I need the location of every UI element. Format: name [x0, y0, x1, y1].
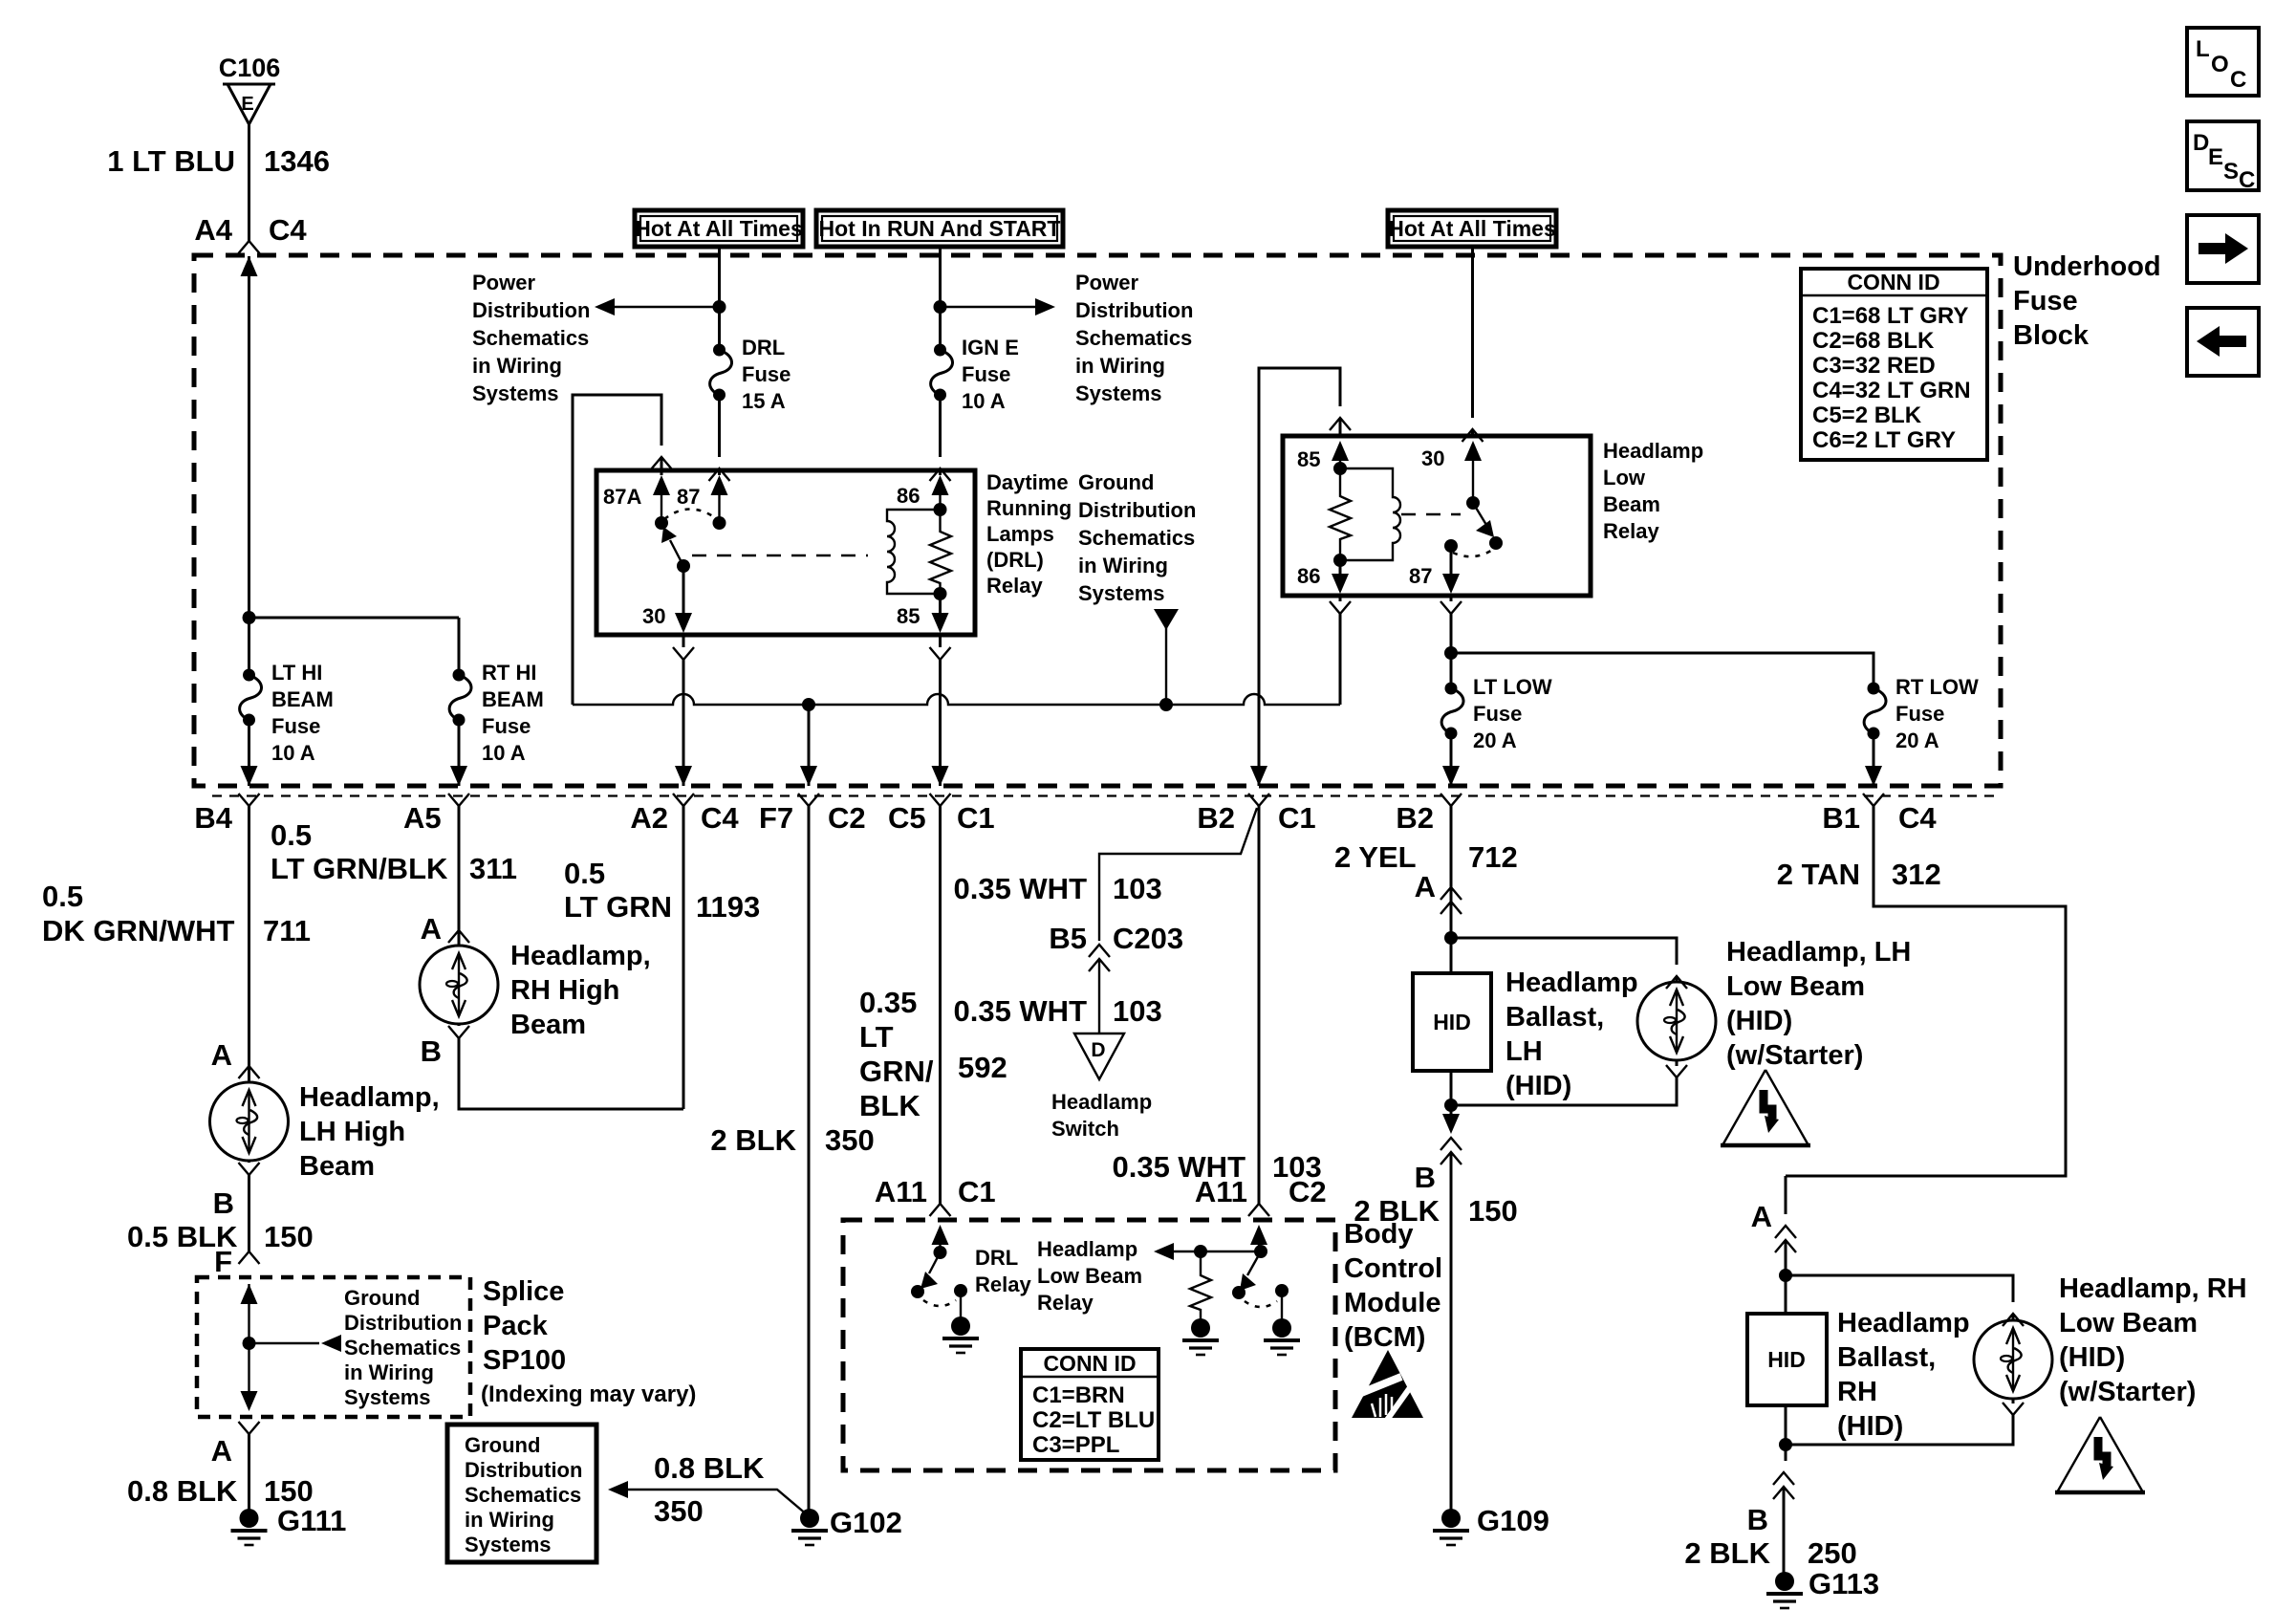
svg-text:G113: G113 — [1809, 1567, 1879, 1600]
ground bus wire y737 with hops — [573, 694, 1340, 711]
svg-text:in Wiring: in Wiring — [1078, 554, 1168, 577]
coil winding — [887, 510, 941, 594]
headlamp ballast RH (HID) — [1747, 1275, 1970, 1445]
svg-text:D: D — [1091, 1039, 1105, 1061]
svg-text:D: D — [2193, 130, 2209, 156]
svg-text:A: A — [1751, 1200, 1772, 1233]
ESD sensitive symbol — [1352, 1350, 1423, 1423]
svg-text:C106: C106 — [219, 54, 281, 82]
hot in run and start box — [816, 210, 1063, 247]
svg-text:Headlamp, LH: Headlamp, LH — [1726, 937, 1911, 968]
svg-text:Relay: Relay — [1603, 519, 1659, 543]
svg-text:B2: B2 — [1396, 801, 1434, 835]
svg-text:350: 350 — [654, 1494, 704, 1528]
svg-text:C4: C4 — [269, 213, 307, 247]
warning triangle LH — [1721, 1070, 1810, 1145]
fuse DRL 15 A — [709, 336, 791, 481]
svg-text:LT GRN/BLK: LT GRN/BLK — [271, 852, 448, 885]
corner icon next arrow — [2187, 215, 2259, 283]
svg-text:F: F — [214, 1245, 232, 1278]
svg-text:LH High: LH High — [299, 1117, 405, 1147]
svg-text:Systems: Systems — [1078, 581, 1165, 605]
svg-text:LT: LT — [859, 1020, 894, 1054]
svg-text:1346: 1346 — [264, 144, 330, 178]
svg-text:RH High: RH High — [510, 975, 619, 1006]
svg-text:86: 86 — [1297, 564, 1320, 588]
wire pin 85 below relay — [930, 635, 951, 786]
svg-text:G111: G111 — [277, 1504, 346, 1537]
body control module dashed box — [843, 1219, 1442, 1470]
svg-text:0.5: 0.5 — [564, 857, 605, 890]
wire 0.5 DK GRN/WHT 711 — [42, 806, 311, 1078]
svg-text:Fuse: Fuse — [1473, 702, 1522, 726]
corner icon LOC — [2187, 28, 2259, 96]
svg-text:Hot In RUN And START: Hot In RUN And START — [819, 216, 1061, 241]
wire 2 BLK 350 — [710, 806, 874, 1511]
connector C106 — [219, 54, 281, 124]
svg-text:C1=BRN: C1=BRN — [1032, 1382, 1125, 1408]
node C5/C1 exit of fuse block — [888, 766, 995, 835]
svg-text:C1: C1 — [1278, 801, 1316, 835]
svg-text:0.8 BLK: 0.8 BLK — [654, 1451, 765, 1485]
coil winding — [1340, 468, 1400, 560]
pin 86 — [932, 475, 949, 495]
pin 30 — [682, 566, 685, 615]
svg-text:20 A: 20 A — [1895, 729, 1939, 752]
wire relay 85 loop — [1259, 368, 1351, 786]
svg-text:C2: C2 — [1289, 1175, 1327, 1208]
wire 0.8 BLK 350 to G102 — [608, 1451, 808, 1528]
svg-text:1 LT BLU: 1 LT BLU — [107, 144, 235, 178]
wire 1 LT BLU 1346 from C106 to A4/C4 — [107, 124, 330, 618]
svg-text:(w/Starter): (w/Starter) — [1726, 1040, 1863, 1071]
svg-text:E: E — [2208, 144, 2223, 170]
svg-text:Systems: Systems — [465, 1533, 552, 1556]
svg-text:C203: C203 — [1113, 922, 1183, 955]
linkage dashed — [1401, 513, 1461, 516]
pin 85 — [1332, 441, 1349, 461]
switch arm — [670, 540, 683, 566]
wire 0.5 BLK 150 — [127, 1161, 314, 1278]
svg-text:85: 85 — [897, 604, 920, 628]
svg-text:in Wiring: in Wiring — [472, 354, 562, 378]
svg-text:A11: A11 — [875, 1175, 927, 1208]
svg-text:(DRL): (DRL) — [986, 548, 1044, 572]
svg-text:Pack: Pack — [483, 1311, 549, 1341]
svg-text:C3=32 RED: C3=32 RED — [1812, 353, 1936, 379]
svg-text:Control: Control — [1344, 1253, 1442, 1284]
svg-text:(w/Starter): (w/Starter) — [2059, 1377, 2196, 1407]
svg-text:Systems: Systems — [472, 381, 559, 405]
svg-text:150: 150 — [264, 1220, 314, 1253]
svg-text:87A: 87A — [603, 485, 641, 509]
svg-text:Headlamp,: Headlamp, — [299, 1082, 440, 1113]
svg-text:Low Beam: Low Beam — [2059, 1308, 2198, 1338]
svg-text:A4: A4 — [194, 213, 232, 247]
svg-text:A: A — [211, 1038, 232, 1072]
svg-text:C1: C1 — [958, 1175, 996, 1208]
svg-text:Schematics: Schematics — [344, 1336, 461, 1360]
svg-text:Distribution: Distribution — [465, 1458, 582, 1482]
svg-text:C1=68 LT GRY: C1=68 LT GRY — [1812, 303, 1968, 329]
svg-text:350: 350 — [825, 1123, 875, 1157]
wire B2 to headlamp switch — [953, 806, 1259, 1205]
svg-text:C4=32 LT GRN: C4=32 LT GRN — [1812, 378, 1971, 403]
BCM conn id table — [1021, 1349, 1159, 1460]
svg-text:Headlamp,: Headlamp, — [510, 941, 651, 971]
svg-text:0.35 WHT: 0.35 WHT — [953, 994, 1087, 1028]
svg-text:C6=2 LT GRY: C6=2 LT GRY — [1812, 427, 1956, 453]
fuse LT LOW 20 A — [1441, 675, 1552, 786]
svg-text:Low: Low — [1603, 466, 1646, 490]
lamp headlamp RH low beam (HID) — [1786, 1273, 2247, 1445]
svg-text:C4: C4 — [701, 801, 739, 835]
svg-text:Headlamp: Headlamp — [1051, 1090, 1152, 1114]
svg-text:C1: C1 — [957, 801, 995, 835]
pin 85 — [939, 594, 942, 615]
svg-text:Ground: Ground — [465, 1433, 540, 1457]
svg-text:2 TAN: 2 TAN — [1777, 858, 1860, 891]
svg-text:312: 312 — [1892, 858, 1941, 891]
svg-text:86: 86 — [897, 484, 920, 508]
svg-text:Daytime: Daytime — [986, 470, 1069, 494]
fuse RT HI BEAM 10 A — [449, 661, 544, 786]
svg-text:592: 592 — [958, 1051, 1007, 1084]
svg-text:F7: F7 — [759, 801, 793, 835]
svg-text:Distribution: Distribution — [344, 1311, 462, 1335]
svg-text:20 A: 20 A — [1473, 729, 1517, 752]
svg-text:B4: B4 — [194, 801, 232, 835]
node A2/C4 exit of fuse block — [630, 766, 739, 835]
svg-text:103: 103 — [1113, 994, 1162, 1028]
ground G111 — [231, 1504, 347, 1545]
svg-text:HID: HID — [1767, 1347, 1806, 1372]
svg-text:A2: A2 — [630, 801, 668, 835]
svg-text:Distribution: Distribution — [1078, 498, 1196, 522]
svg-text:Fuse: Fuse — [271, 714, 320, 738]
svg-text:Fuse: Fuse — [482, 714, 531, 738]
svg-text:SP100: SP100 — [483, 1345, 566, 1376]
svg-text:Block: Block — [2013, 320, 2090, 351]
wire RH high beam B to A2 — [421, 1024, 683, 1109]
svg-text:LT LOW: LT LOW — [1473, 675, 1552, 699]
warning triangle RH — [2055, 1417, 2145, 1492]
ground G109 — [1433, 1504, 1549, 1545]
wire into RH ballast A — [1751, 1176, 1796, 1282]
svg-text:1193: 1193 — [696, 890, 760, 924]
svg-text:Beam: Beam — [299, 1151, 375, 1182]
svg-text:B: B — [1415, 1161, 1436, 1194]
wire 2 BLK 350 down to G102 — [808, 705, 811, 786]
svg-text:C5=2 BLK: C5=2 BLK — [1812, 402, 1922, 428]
svg-text:Distribution: Distribution — [1075, 298, 1193, 322]
wire 2 BLK 250 to G113 — [1684, 1438, 1856, 1574]
wire 86 down to ground bus — [1330, 596, 1351, 705]
node B4 exit of fuse block — [194, 766, 259, 835]
linkage dashed — [692, 555, 868, 557]
wire from run/start hot box through IGN E fuse — [934, 247, 947, 350]
svg-text:Relay: Relay — [1037, 1291, 1094, 1315]
svg-text:Beam: Beam — [510, 1010, 586, 1040]
wire 0.35 WHT 103 to BCM A11 C2 — [1112, 1150, 1326, 1216]
fuse LT HI BEAM 10 A — [240, 661, 334, 786]
svg-text:150: 150 — [1468, 1194, 1518, 1228]
svg-text:C2: C2 — [828, 801, 866, 835]
svg-text:2 BLK: 2 BLK — [710, 1123, 796, 1157]
svg-text:BLK: BLK — [859, 1089, 921, 1122]
lamp headlamp RH high beam — [420, 930, 651, 1040]
svg-text:Module: Module — [1344, 1288, 1441, 1318]
svg-text:A5: A5 — [403, 801, 442, 835]
hot at all times box (right) — [1388, 210, 1556, 247]
svg-text:Ground: Ground — [344, 1286, 420, 1310]
fuse IGN E 10 A — [930, 336, 1019, 481]
svg-text:Schematics: Schematics — [1078, 526, 1195, 550]
svg-text:(HID): (HID) — [1505, 1071, 1571, 1101]
svg-text:C5: C5 — [888, 801, 926, 835]
connector line below fuse block — [212, 794, 2001, 796]
svg-text:Low Beam: Low Beam — [1726, 971, 1865, 1002]
svg-text:150: 150 — [264, 1474, 314, 1508]
svg-text:Schematics: Schematics — [1075, 326, 1192, 350]
svg-text:311: 311 — [469, 852, 517, 885]
svg-text:E: E — [241, 94, 253, 115]
svg-text:15 A: 15 A — [742, 389, 786, 413]
svg-text:Hot At All Times: Hot At All Times — [635, 216, 803, 241]
svg-text:BEAM: BEAM — [482, 687, 544, 711]
svg-text:Underhood: Underhood — [2013, 251, 2161, 282]
svg-text:RT HI: RT HI — [482, 661, 536, 685]
wire 87A loop to DRL relay — [573, 395, 672, 705]
svg-text:CONN ID: CONN ID — [1043, 1351, 1136, 1376]
node F7/C2 exit of fuse block — [759, 766, 866, 835]
svg-text:Beam: Beam — [1603, 492, 1660, 516]
svg-text:Splice: Splice — [483, 1276, 564, 1307]
wire 2 YEL 712 — [1334, 806, 1518, 938]
svg-text:A: A — [1415, 870, 1436, 903]
wire from left hot box through DRL fuse — [713, 247, 726, 350]
svg-text:Fuse: Fuse — [2013, 286, 2078, 316]
svg-text:712: 712 — [1468, 840, 1518, 874]
svg-text:(BCM): (BCM) — [1344, 1322, 1425, 1353]
svg-text:GRN/: GRN/ — [859, 1055, 934, 1088]
label daytime running lamps relay — [986, 470, 1072, 598]
wire hot to relay 30 — [1462, 247, 1484, 442]
svg-text:CONN ID: CONN ID — [1847, 270, 1939, 294]
svg-text:B2: B2 — [1197, 801, 1235, 835]
svg-text:Fuse: Fuse — [1895, 702, 1944, 726]
svg-text:B: B — [1747, 1503, 1768, 1536]
node B2/C1 exit of fuse block — [1197, 766, 1315, 835]
pin 30 switch — [1464, 441, 1482, 461]
svg-text:85: 85 — [1297, 447, 1320, 471]
svg-text:B: B — [421, 1034, 442, 1068]
svg-text:Low Beam: Low Beam — [1037, 1264, 1142, 1288]
hot at all times box (left) — [635, 210, 803, 247]
svg-text:C2=LT BLU: C2=LT BLU — [1032, 1407, 1155, 1433]
relay headlamp low beam — [1283, 436, 1591, 596]
label headlamp low beam relay — [1603, 439, 1703, 543]
svg-text:Switch: Switch — [1051, 1117, 1119, 1141]
svg-text:DRL: DRL — [742, 336, 785, 359]
svg-text:0.5: 0.5 — [42, 880, 83, 913]
pin 87A — [653, 475, 670, 495]
power distribution reference arrow (left) — [472, 271, 720, 405]
resistor — [1330, 468, 1351, 560]
ground distribution schematics box (solid) — [447, 1425, 596, 1562]
svg-text:(HID): (HID) — [2059, 1342, 2125, 1373]
svg-text:Running: Running — [986, 496, 1072, 520]
pin 86 — [1339, 560, 1342, 591]
svg-text:A11: A11 — [1195, 1175, 1247, 1208]
svg-text:Ballast,: Ballast, — [1505, 1002, 1604, 1033]
svg-text:LT GRN: LT GRN — [564, 890, 672, 924]
svg-text:Hot At All Times: Hot At All Times — [1388, 216, 1556, 241]
svg-text:HID: HID — [1433, 1010, 1471, 1034]
svg-text:250: 250 — [1808, 1536, 1857, 1570]
svg-text:Power: Power — [472, 271, 535, 294]
wire 2 TAN 312 — [1777, 806, 2066, 1176]
wire 0.5 LT GRN/BLK 311 — [271, 806, 517, 946]
svg-text:A: A — [421, 912, 442, 946]
corner icon DESC — [2187, 121, 2259, 193]
svg-text:103: 103 — [1113, 872, 1162, 905]
svg-text:Relay: Relay — [986, 574, 1043, 598]
svg-text:in Wiring: in Wiring — [465, 1508, 554, 1532]
svg-text:in Wiring: in Wiring — [344, 1360, 434, 1384]
svg-text:LT HI: LT HI — [271, 661, 322, 685]
BCM DRL relay switch — [911, 1225, 1031, 1353]
svg-text:G109: G109 — [1477, 1504, 1549, 1537]
svg-text:IGN E: IGN E — [962, 336, 1019, 359]
svg-text:10 A: 10 A — [271, 741, 315, 765]
node B1/C4 exit of fuse block — [1822, 766, 1937, 835]
svg-text:711: 711 — [263, 914, 311, 947]
svg-text:Headlamp, RH: Headlamp, RH — [2059, 1273, 2247, 1304]
svg-text:RT LOW: RT LOW — [1895, 675, 1979, 699]
svg-text:Lamps: Lamps — [986, 522, 1054, 546]
fuse RT LOW 20 A — [1864, 675, 1979, 786]
svg-text:(HID): (HID) — [1837, 1411, 1903, 1442]
svg-text:L: L — [2196, 36, 2210, 62]
svg-text:Distribution: Distribution — [472, 298, 590, 322]
svg-text:Schematics: Schematics — [472, 326, 589, 350]
svg-text:0.35: 0.35 — [859, 986, 917, 1019]
svg-text:C: C — [2230, 67, 2246, 93]
svg-text:DK GRN/WHT: DK GRN/WHT — [42, 914, 235, 947]
svg-text:(Indexing may vary): (Indexing may vary) — [481, 1382, 696, 1407]
pin 87 — [711, 475, 728, 495]
svg-text:87: 87 — [677, 485, 700, 509]
wire 87 to low fuses — [1440, 596, 1874, 688]
svg-text:C3=PPL: C3=PPL — [1032, 1432, 1119, 1458]
node A5 exit of fuse block — [403, 766, 469, 835]
svg-text:B5: B5 — [1049, 922, 1087, 955]
splice wire and ground dist reference — [241, 1284, 463, 1411]
svg-text:C4: C4 — [1898, 801, 1937, 835]
svg-text:BEAM: BEAM — [271, 687, 334, 711]
conn id table (underhood fuse block) — [1801, 269, 1987, 460]
svg-text:Fuse: Fuse — [962, 362, 1010, 386]
svg-text:O: O — [2211, 52, 2229, 77]
svg-text:in Wiring: in Wiring — [1075, 354, 1165, 378]
svg-text:Systems: Systems — [1075, 381, 1162, 405]
ground distribution reference (middle) — [1078, 470, 1196, 705]
svg-text:B1: B1 — [1822, 801, 1860, 835]
junction to RT HI feed — [243, 611, 460, 675]
headlamp ballast LH (HID) — [1413, 931, 1638, 1105]
svg-text:LH: LH — [1505, 1036, 1543, 1067]
svg-text:2 BLK: 2 BLK — [1684, 1536, 1770, 1570]
svg-text:Schematics: Schematics — [465, 1483, 581, 1507]
svg-text:10 A: 10 A — [962, 389, 1006, 413]
connector D headlamp switch — [1051, 1033, 1152, 1141]
dotted arc to 87 — [1453, 549, 1494, 556]
svg-text:(HID): (HID) — [1726, 1006, 1792, 1036]
ground G102 — [791, 1506, 902, 1545]
wire 0.8 BLK 150 to G111 — [127, 1422, 314, 1511]
wire 0.5 LT GRN 1193 — [564, 806, 760, 1109]
coil resistor — [930, 503, 951, 600]
svg-text:10 A: 10 A — [482, 741, 526, 765]
BCM headlamp low beam relay — [1037, 1225, 1300, 1355]
svg-text:RH: RH — [1837, 1377, 1877, 1407]
lamp headlamp LH low beam (HID) — [1451, 937, 1911, 1105]
svg-text:Relay: Relay — [975, 1273, 1031, 1296]
node B2 exit of fuse block (2 YEL) — [1396, 766, 1462, 835]
svg-text:2 BLK: 2 BLK — [1354, 1194, 1440, 1228]
svg-text:S: S — [2223, 159, 2239, 185]
power distribution reference arrow (right) — [941, 271, 1194, 405]
lamp headlamp LH high beam — [210, 1066, 440, 1182]
svg-text:Headlamp: Headlamp — [1837, 1308, 1970, 1338]
svg-text:Headlamp: Headlamp — [1603, 439, 1703, 463]
svg-text:2 YEL: 2 YEL — [1334, 840, 1417, 874]
splice pack SP100 dashed box — [197, 1276, 696, 1417]
svg-text:A: A — [211, 1434, 232, 1468]
svg-text:Headlamp: Headlamp — [1505, 968, 1638, 998]
relay daytime running lamps (DRL) — [596, 470, 975, 635]
svg-text:Ground: Ground — [1078, 470, 1154, 494]
svg-text:30: 30 — [642, 604, 665, 628]
svg-text:Fuse: Fuse — [742, 362, 791, 386]
svg-text:C: C — [2239, 167, 2255, 193]
svg-text:Headlamp: Headlamp — [1037, 1237, 1137, 1261]
wire pin 30 below relay — [673, 635, 694, 786]
svg-text:C2=68 BLK: C2=68 BLK — [1812, 328, 1935, 354]
underhood fuse block dashed boundary — [194, 251, 2161, 786]
svg-text:30: 30 — [1421, 446, 1444, 470]
wire 0.35 LT GRN/BLK 592 — [859, 806, 1007, 1216]
svg-text:0.8 BLK: 0.8 BLK — [127, 1474, 238, 1508]
svg-text:Power: Power — [1075, 271, 1138, 294]
svg-text:0.35 WHT: 0.35 WHT — [953, 872, 1087, 905]
dotted throw arc — [664, 510, 717, 520]
pin 87 — [1444, 539, 1458, 553]
svg-text:DRL: DRL — [975, 1246, 1018, 1270]
svg-text:B: B — [213, 1186, 234, 1220]
ground G113 — [1766, 1567, 1879, 1608]
svg-text:Systems: Systems — [344, 1385, 431, 1409]
wire 2 BLK 150 to G109 — [1354, 1099, 1517, 1511]
svg-text:G102: G102 — [830, 1506, 902, 1539]
svg-text:Ballast,: Ballast, — [1837, 1342, 1936, 1373]
corner icon back arrow — [2187, 308, 2259, 376]
svg-text:0.5: 0.5 — [271, 818, 312, 852]
svg-text:87: 87 — [1409, 564, 1432, 588]
